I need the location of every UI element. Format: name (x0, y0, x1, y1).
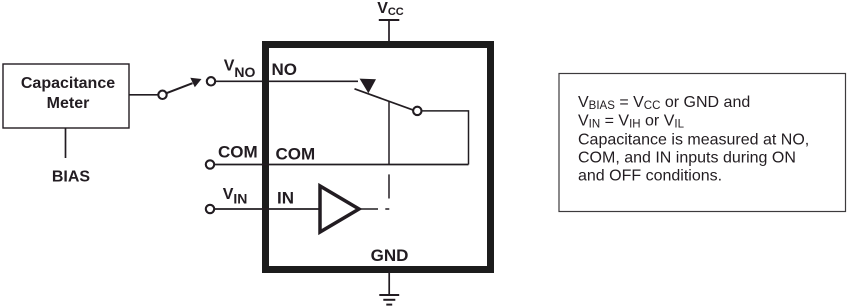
node VNO terminal (207, 77, 215, 85)
internal switch contact arrowhead (360, 79, 376, 94)
svg-text:Meter: Meter (47, 95, 90, 112)
svg-text:NO: NO (272, 60, 298, 79)
node COM terminal (206, 160, 214, 168)
svg-text:VCC: VCC (377, 0, 404, 18)
switch S1 pole node (158, 91, 166, 99)
control line solid segment (388, 101, 390, 165)
switch S1 lever (166, 83, 192, 93)
wire box to ground (388, 270, 390, 295)
svg-text:and OFF conditions.: and OFF conditions. (578, 168, 722, 185)
DUT box U1 (266, 45, 491, 270)
svg-text:VIN: VIN (223, 186, 248, 207)
switch S1 arrowhead (190, 78, 201, 87)
control line dash vertical (388, 174, 390, 198)
internal switch pivot node (413, 107, 421, 115)
wire VCC to box (388, 20, 390, 42)
svg-text:BIAS: BIAS (52, 169, 91, 186)
wire pivot to COM (422, 111, 469, 165)
wire meter to switch (129, 94, 158, 96)
wire VIN to IN (214, 208, 319, 210)
internal switch lever (355, 89, 414, 110)
svg-text:VNO: VNO (224, 58, 256, 81)
power VCC rail bar (379, 19, 400, 21)
svg-text:COM: COM (218, 143, 258, 162)
ground symbol (379, 295, 399, 305)
node VIN terminal (206, 205, 214, 213)
note box (559, 74, 846, 212)
wire BIAS stub (65, 128, 67, 158)
control line dash corner (385, 208, 389, 210)
svg-text:GND: GND (371, 246, 409, 265)
note text (578, 94, 809, 184)
svg-text:COM, and IN inputs during ON: COM, and IN inputs during ON (578, 149, 796, 166)
capacitance meter box (3, 64, 129, 128)
svg-text:IN: IN (277, 189, 294, 208)
svg-text:Capacitance is measured at NO,: Capacitance is measured at NO, (578, 131, 809, 148)
buffer output lead (359, 208, 378, 210)
svg-text:Capacitance: Capacitance (21, 75, 115, 92)
wire VNO to NO (215, 80, 358, 82)
buffer amplifier U2 (320, 186, 359, 232)
svg-text:COM: COM (276, 145, 316, 164)
wire COM (214, 164, 468, 166)
